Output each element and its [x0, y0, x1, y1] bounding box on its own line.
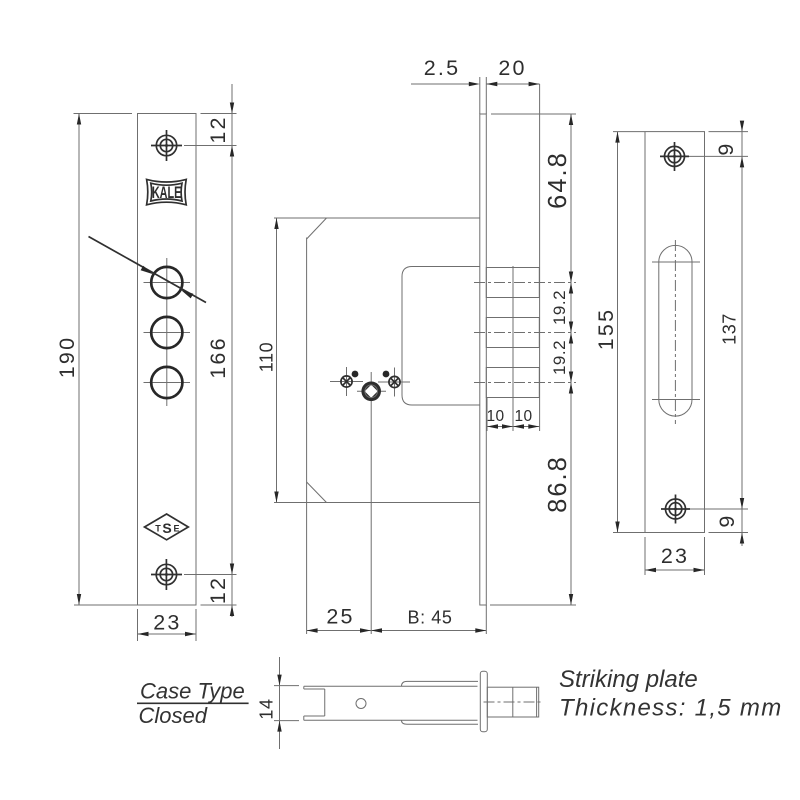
dimension chain 64.8 / 19.2 / 19.2 / 86.8 (right of bolts) [490, 114, 576, 605]
dimension 190 (far left) [55, 114, 138, 606]
case outline [274, 218, 480, 634]
svg-text:Striking plate: Striking plate [559, 666, 698, 693]
bolt centerlines [474, 282, 576, 284]
dimension 23 (bottom of striking plate) [645, 537, 705, 575]
svg-text:10: 10 [514, 408, 532, 425]
svg-text:20: 20 [498, 56, 526, 80]
svg-text:B: 45: B: 45 [407, 608, 452, 628]
bottom screw hole [151, 559, 182, 590]
faceplate side profile [480, 114, 487, 605]
svg-text:Thickness: 1,5 mm: Thickness: 1,5 mm [559, 695, 783, 722]
bolt top view [484, 687, 544, 717]
svg-text:14: 14 [257, 698, 277, 719]
bolt hole circles with centerlines [144, 258, 191, 406]
svg-text:T: T [155, 524, 161, 534]
cover plate edges [402, 681, 479, 686]
faceplate outline [138, 114, 197, 606]
svg-text:137: 137 [720, 313, 740, 345]
hole in case top view [356, 699, 366, 709]
svg-text:25: 25 [326, 605, 354, 629]
screws cluster [330, 367, 410, 634]
svg-text:2.5: 2.5 [424, 56, 461, 80]
svg-text:12: 12 [206, 576, 230, 604]
diagonal pointer arrow through top bolt circle [89, 237, 207, 303]
svg-text:9: 9 [714, 141, 738, 155]
bottom screw hole [661, 495, 690, 524]
striking plate outline [645, 132, 705, 533]
dimensions 2.5 and 20 (top) [411, 56, 540, 431]
dimension 155 (left of plate) [594, 132, 645, 533]
svg-text:19.2: 19.2 [550, 340, 569, 375]
faceplate edge-on [480, 671, 487, 732]
svg-text:10: 10 [486, 408, 504, 425]
dimension 23 (bottom of faceplate) [138, 609, 197, 641]
svg-text:86.8: 86.8 [544, 455, 572, 513]
dimension chain 12 / 166 / 12 (right of faceplate) [184, 84, 237, 617]
svg-text:166: 166 [206, 336, 230, 378]
svg-text:Closed: Closed [139, 703, 208, 728]
svg-text:64.8: 64.8 [544, 151, 572, 209]
TSE diamond logo [145, 514, 189, 540]
caption Case Type / Closed [137, 679, 249, 729]
dimension 14 [257, 657, 300, 749]
svg-text:155: 155 [594, 308, 618, 350]
svg-text:S: S [162, 520, 171, 536]
dimension chain 9 / 137 / 9 (right of plate) [689, 121, 748, 546]
top screw hole [660, 142, 689, 171]
dimension 10 | 10 (below bolts) [486, 266, 539, 431]
svg-text:9: 9 [715, 513, 739, 527]
bolt slot (stadium) [652, 240, 700, 424]
dimension 110 (left of case) [257, 218, 279, 503]
svg-text:12: 12 [206, 115, 230, 143]
top screw hole [151, 130, 182, 161]
svg-text:19.2: 19.2 [550, 290, 569, 325]
svg-text:E: E [173, 524, 179, 534]
svg-text:Case Type: Case Type [140, 679, 245, 704]
inner rounded pocket [402, 267, 480, 406]
dimensions 25 and B: 45 (bottom) [307, 605, 487, 635]
svg-text:23: 23 [153, 611, 181, 635]
case channel outline [304, 686, 478, 720]
caption Striking plate Thickness [559, 666, 783, 722]
svg-text:110: 110 [257, 342, 277, 373]
svg-text:190: 190 [55, 336, 79, 378]
svg-text:KALE: KALE [152, 184, 182, 202]
KALE logo badge [147, 179, 187, 204]
svg-text:23: 23 [661, 544, 689, 568]
bolts (side view) [486, 268, 539, 298]
